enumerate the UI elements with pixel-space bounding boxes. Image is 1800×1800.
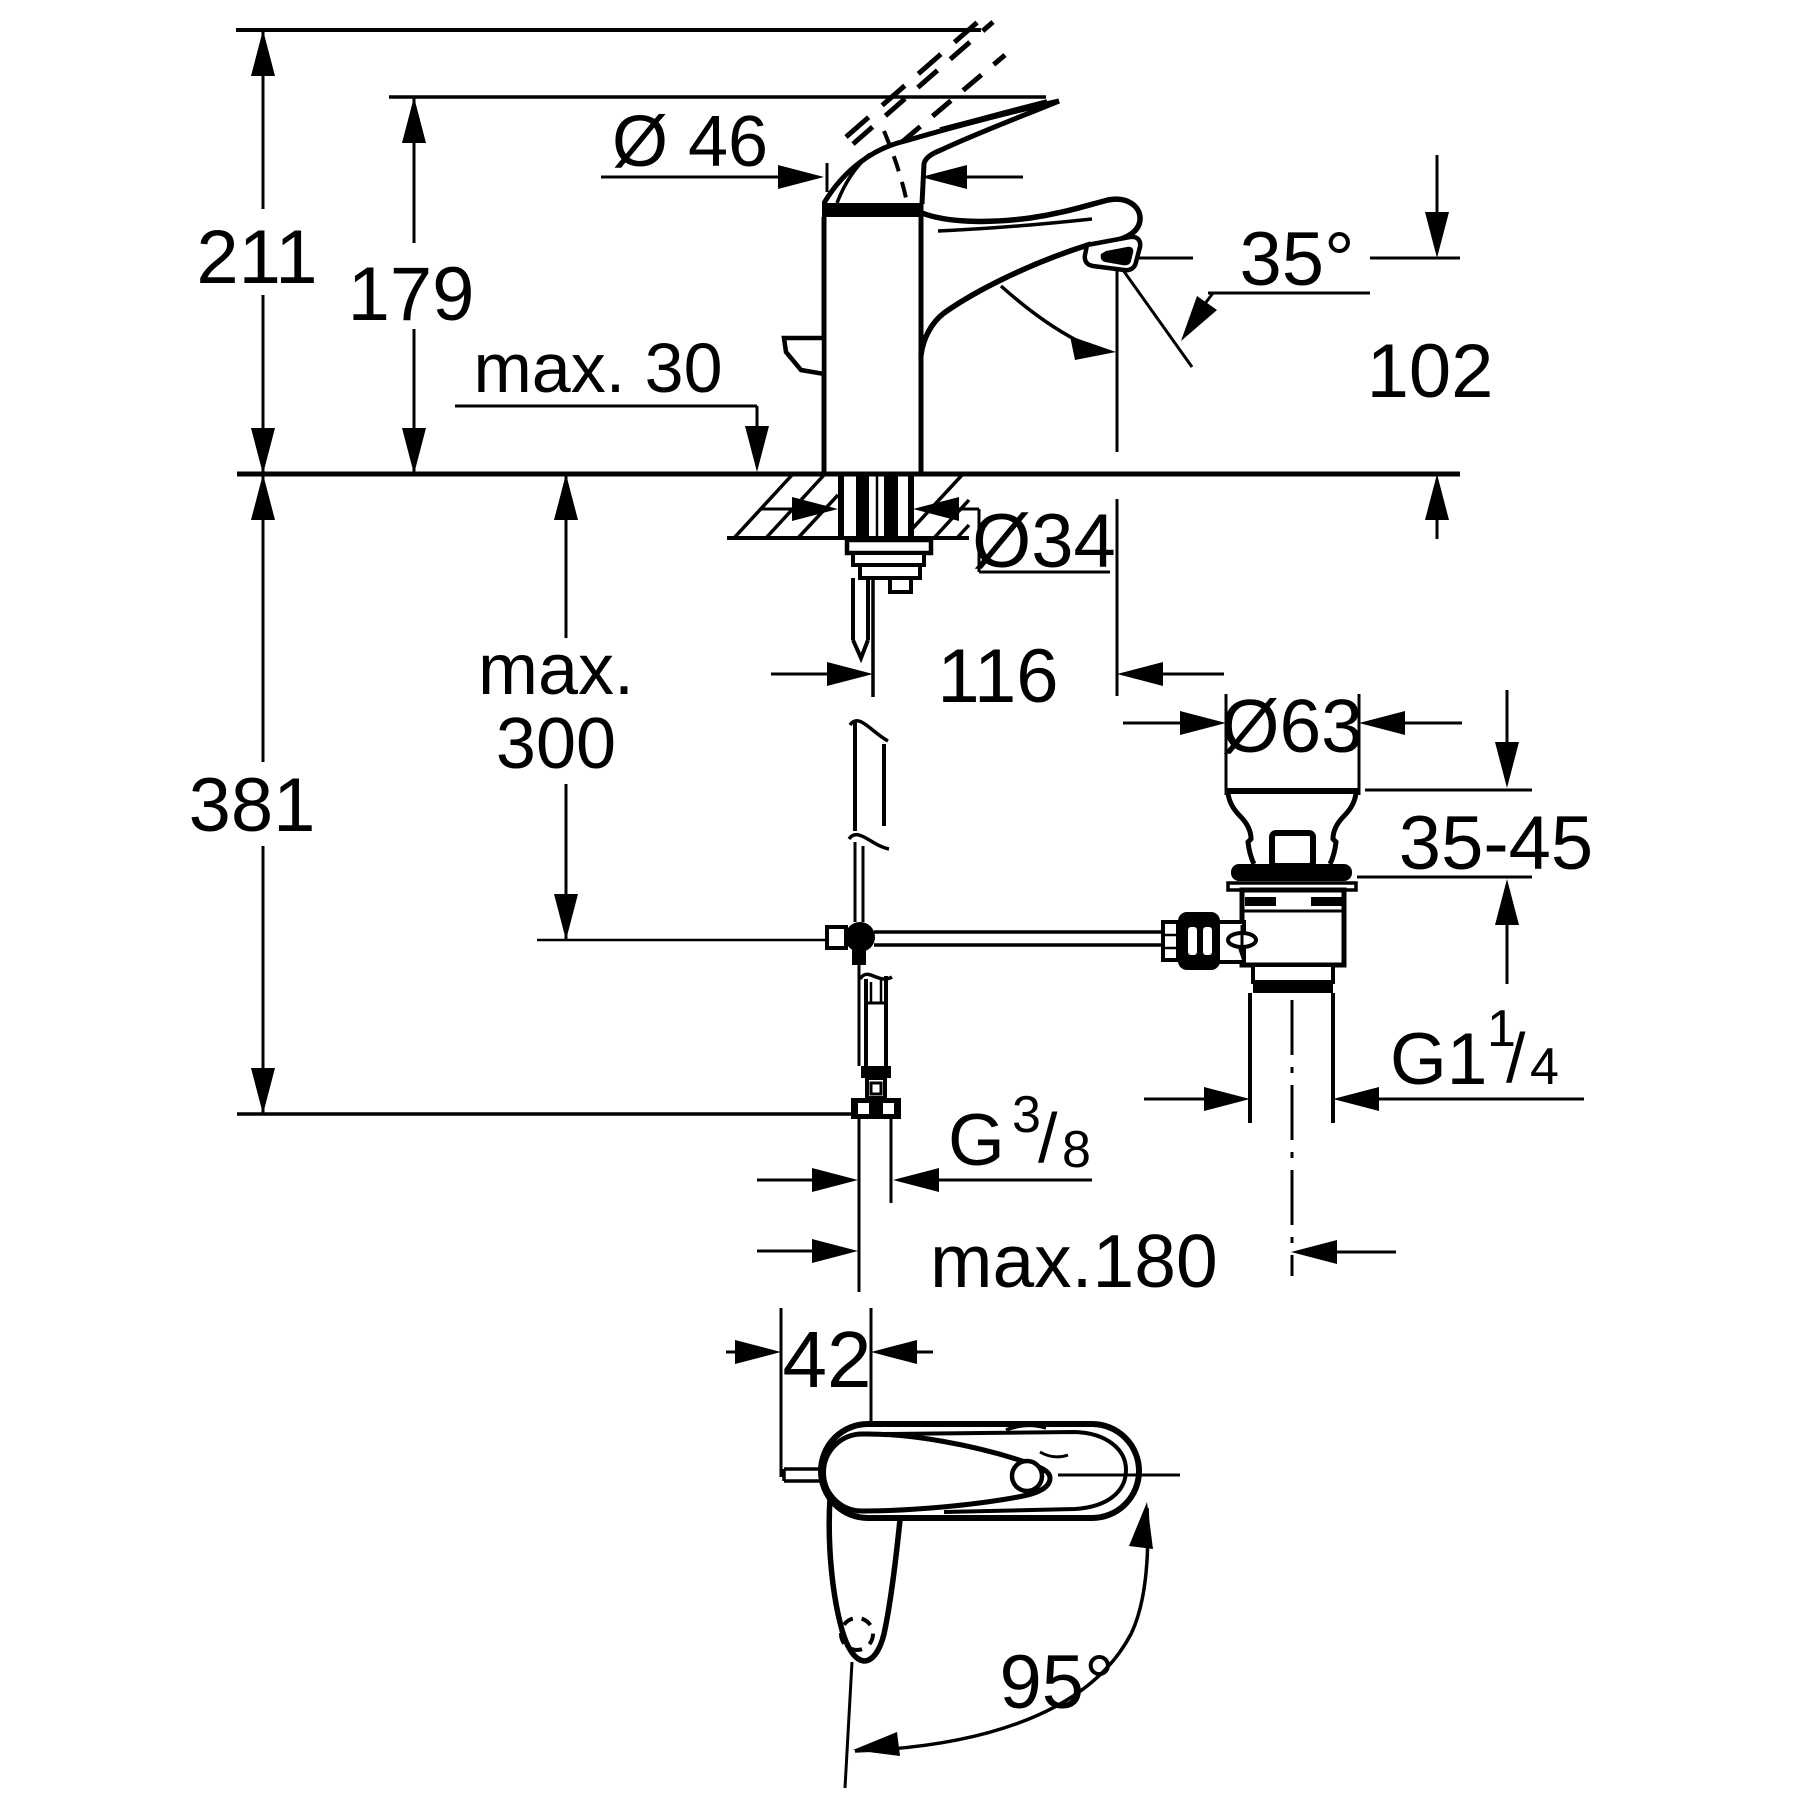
svg-text:max. 30: max. 30 — [474, 329, 723, 407]
svg-text:/: / — [1038, 1099, 1058, 1177]
svg-text:3: 3 — [1012, 1086, 1041, 1144]
svg-text:300: 300 — [496, 704, 616, 784]
svg-text:8: 8 — [1062, 1121, 1091, 1179]
svg-text:Ø63: Ø63 — [1221, 684, 1363, 768]
svg-text:35°: 35° — [1240, 217, 1355, 302]
svg-text:35-45: 35-45 — [1399, 801, 1593, 886]
svg-text:max.180: max.180 — [930, 1219, 1218, 1303]
svg-text:max.: max. — [478, 630, 634, 710]
svg-text:G1: G1 — [1390, 1019, 1487, 1100]
svg-text:4: 4 — [1530, 1038, 1559, 1096]
svg-text:/: / — [1506, 1019, 1526, 1097]
svg-text:211: 211 — [196, 215, 317, 300]
svg-text:42: 42 — [783, 1315, 872, 1404]
svg-text:95°: 95° — [1000, 1640, 1115, 1725]
svg-text:G: G — [948, 1100, 1005, 1181]
svg-text:Ø34: Ø34 — [972, 499, 1116, 584]
svg-text:102: 102 — [1367, 329, 1494, 414]
svg-text:Ø 46: Ø 46 — [612, 102, 768, 182]
svg-text:116: 116 — [937, 634, 1058, 719]
svg-text:381: 381 — [189, 763, 316, 848]
svg-text:179: 179 — [348, 252, 475, 337]
